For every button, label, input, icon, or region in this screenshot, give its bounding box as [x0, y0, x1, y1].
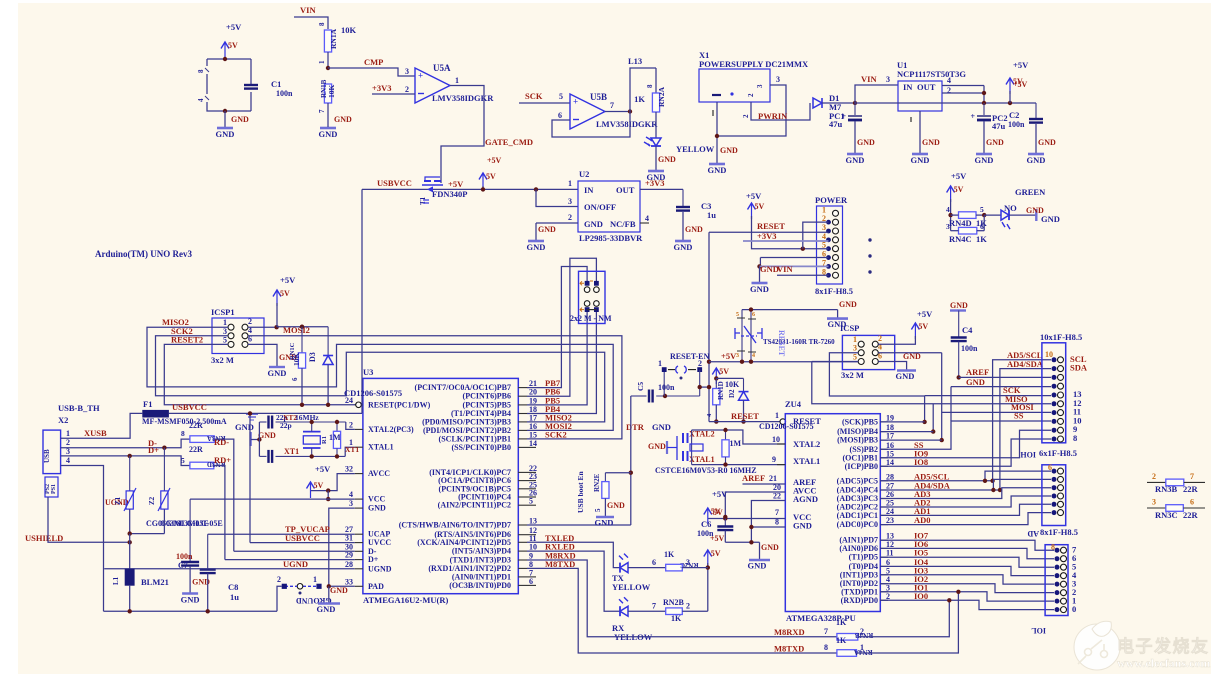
- svg-text:(MOSI)PB3: (MOSI)PB3: [837, 436, 878, 445]
- wire IO6: [880, 548, 1054, 558]
- svg-text:RD+: RD+: [214, 455, 231, 465]
- power +5V: [307, 482, 315, 489]
- resistor RN4A 1K: [837, 650, 857, 657]
- wire: [258, 422, 260, 456]
- wire: [604, 498, 606, 516]
- resistor RN4D 1K: [959, 212, 977, 219]
- U3 pin 13 (CTS/HWB/AIN6/TO/INT7)PD7: [518, 524, 527, 526]
- svg-text:GND: GND: [538, 225, 556, 234]
- svg-text:3: 3: [349, 499, 353, 508]
- U3 pin 9 (TXD1/INT3)PD3: [518, 559, 527, 561]
- svg-text:LMV358IDGKR: LMV358IDGKR: [432, 93, 494, 103]
- wire RESET to ZU4: [709, 421, 781, 423]
- svg-text:VIN: VIN: [861, 74, 877, 84]
- svg-text:16MHz: 16MHz: [295, 413, 319, 422]
- svg-text:2: 2: [686, 602, 690, 611]
- svg-text:10K: 10K: [725, 380, 740, 389]
- capacitor 22p: [259, 455, 266, 457]
- ZU4 pin 3 (TXD)PD1: [880, 591, 888, 593]
- ground: [249, 432, 251, 446]
- svg-text:6x1F-H8.5: 6x1F-H8.5: [1039, 448, 1077, 458]
- node: [326, 66, 330, 70]
- wire: [857, 592, 959, 653]
- svg-text:RESET(PC1/DW): RESET(PC1/DW): [368, 400, 431, 409]
- node: [128, 609, 132, 613]
- svg-text:100n: 100n: [276, 89, 293, 98]
- svg-text:F1: F1: [143, 399, 152, 409]
- svg-text:33: 33: [345, 577, 353, 586]
- svg-text:GND: GND: [922, 138, 940, 147]
- svg-text:4: 4: [66, 456, 70, 465]
- svg-text:19: 19: [886, 413, 894, 422]
- svg-text:FDN340P: FDN340P: [432, 189, 467, 199]
- svg-text:Arduino(TM) UNO Rev3: Arduino(TM) UNO Rev3: [95, 249, 192, 259]
- wire: [61, 456, 190, 466]
- svg-text:GND: GND: [793, 521, 812, 531]
- svg-text:GND: GND: [368, 504, 386, 513]
- svg-text:1u: 1u: [707, 210, 716, 220]
- svg-text:U5B: U5B: [590, 92, 607, 102]
- node: [335, 454, 339, 458]
- svg-text:XT1: XT1: [345, 445, 359, 454]
- wire RESET2: [164, 344, 356, 404]
- wire: [207, 102, 251, 111]
- svg-text:VIN: VIN: [300, 5, 316, 15]
- U3 pin 7 (AIN0/INT1)PD1: [518, 576, 527, 578]
- node: [1008, 101, 1012, 105]
- ZU4 pin 17 (MOSI)PB3: [880, 439, 888, 441]
- wire: [628, 567, 666, 569]
- svg-text:47u: 47u: [992, 121, 1006, 131]
- node: [326, 403, 330, 407]
- wire UGND: [104, 568, 355, 570]
- resistor 1M: [336, 422, 338, 431]
- svg-text:LMV358IDGKR: LMV358IDGKR: [596, 119, 658, 129]
- node: [749, 540, 753, 544]
- svg-text:+3V3: +3V3: [757, 231, 776, 241]
- LED TX yellow: [620, 563, 628, 573]
- U3 pin 10 (INT5/AIN3)PD4: [518, 550, 527, 552]
- wire: [207, 574, 209, 612]
- svg-text:2: 2: [886, 592, 890, 601]
- wire: [206, 59, 208, 66]
- wire: [345, 447, 355, 456]
- svg-text:RN2E: RN2E: [593, 473, 601, 492]
- wire: [61, 413, 143, 438]
- pin 7: [1055, 556, 1060, 561]
- svg-text:U3: U3: [363, 367, 373, 377]
- wire: [207, 58, 251, 60]
- wire: [1000, 369, 1051, 490]
- dots: [868, 238, 871, 241]
- svg-text:5: 5: [223, 335, 227, 344]
- wire: [777, 274, 829, 276]
- svg-text:0: 0: [1072, 604, 1076, 614]
- wire +5V rail to button: [709, 361, 858, 363]
- wire PB4: [527, 310, 596, 414]
- svg-text:3: 3: [822, 223, 826, 232]
- svg-text:DTR: DTR: [626, 422, 645, 432]
- svg-text:IN: IN: [903, 82, 913, 92]
- wire: [751, 102, 810, 120]
- ZU4 pin 16 (SS)PB2: [880, 448, 888, 450]
- svg-text:+: +: [573, 97, 578, 107]
- svg-text:6: 6: [1048, 463, 1052, 472]
- svg-text:(ADC5)PC5: (ADC5)PC5: [837, 476, 878, 485]
- svg-text:AD: AD: [1027, 529, 1039, 538]
- wire: [983, 121, 985, 153]
- node: [715, 134, 719, 138]
- svg-text:USBVCC: USBVCC: [377, 178, 412, 188]
- node: [749, 307, 753, 311]
- svg-text:GND: GND: [911, 155, 930, 165]
- svg-text:GND: GND: [720, 146, 738, 155]
- svg-text:U2: U2: [579, 169, 589, 179]
- svg-text:+5V: +5V: [315, 464, 331, 474]
- svg-text:XTAL2: XTAL2: [793, 439, 820, 449]
- svg-text:2: 2: [277, 575, 281, 584]
- U3 pin 18 (T1/PCINT4)PB4: [518, 413, 527, 415]
- wire: [655, 68, 657, 93]
- ZU4 pin 14 (ICP)PB0: [880, 465, 888, 467]
- wire: [682, 567, 708, 569]
- wire: [993, 360, 1051, 481]
- ZU4 pin 23 (ADC0)PC0: [880, 524, 888, 526]
- node: [274, 325, 278, 329]
- svg-text:7: 7: [610, 101, 614, 110]
- svg-text:1: 1: [822, 205, 826, 214]
- svg-text:GND: GND: [846, 155, 865, 165]
- pin 9: [1052, 366, 1057, 371]
- capacitor C8 1u: [207, 534, 209, 569]
- svg-text:5: 5: [736, 312, 739, 318]
- svg-text:7: 7: [824, 627, 828, 636]
- node: [714, 376, 718, 380]
- wire: [950, 387, 952, 421]
- wire: [605, 111, 630, 113]
- svg-text:(INT5/AIN3)PD4: (INT5/AIN3)PD4: [452, 547, 511, 556]
- node: [128, 454, 132, 458]
- svg-text:T1: T1: [419, 196, 427, 205]
- svg-text:5V: 5V: [486, 172, 496, 181]
- resistor RN1B 10K: [324, 84, 331, 103]
- wire: [941, 353, 943, 440]
- svg-text:L1: L1: [112, 576, 120, 585]
- node: [922, 420, 926, 424]
- svg-text:C4: C4: [962, 325, 973, 335]
- node: [698, 385, 702, 389]
- svg-text:10: 10: [529, 543, 537, 552]
- node: [310, 420, 314, 424]
- svg-text:AREF: AREF: [966, 367, 989, 377]
- svg-text:3: 3: [886, 75, 890, 84]
- svg-text:2: 2: [568, 213, 572, 222]
- svg-text:5V: 5V: [918, 322, 928, 331]
- svg-text:XTAL1: XTAL1: [689, 455, 715, 464]
- LED green: [1001, 210, 1009, 220]
- pin 5: [1052, 477, 1057, 482]
- resistor RN3D 22R: [190, 462, 214, 469]
- wire: [724, 531, 726, 543]
- svg-text:1K: 1K: [671, 614, 682, 623]
- pin 2: [1052, 502, 1057, 507]
- U3 pin 24 circle: [356, 402, 362, 408]
- svg-text:6: 6: [558, 111, 562, 120]
- node: [327, 584, 331, 588]
- node: [223, 109, 227, 113]
- wire PB7: [527, 267, 587, 388]
- wire M8RXD: [527, 560, 837, 637]
- svg-text:5: 5: [853, 353, 857, 362]
- svg-text:SDA: SDA: [1070, 363, 1088, 373]
- pin 8: [1052, 375, 1057, 380]
- wire: [251, 439, 259, 441]
- svg-text:GREEN: GREEN: [1015, 187, 1046, 197]
- svg-text:100n: 100n: [176, 552, 193, 561]
- wire: [250, 59, 252, 85]
- wire: [715, 405, 717, 422]
- svg-text:RESET2: RESET2: [171, 335, 203, 345]
- svg-text:RESET: RESET: [777, 330, 786, 357]
- svg-text:5: 5: [529, 497, 533, 506]
- wire: [327, 52, 329, 68]
- svg-text:2: 2: [66, 438, 70, 447]
- ground: [752, 282, 768, 285]
- svg-text:GND: GND: [857, 138, 875, 147]
- svg-text:UVCC: UVCC: [368, 538, 391, 547]
- resistor RN2C 1K: [666, 564, 683, 571]
- svg-text:POWERSUPPLY DC21MMX: POWERSUPPLY DC21MMX: [699, 59, 809, 69]
- svg-text:(T1)PD5: (T1)PD5: [849, 553, 878, 562]
- svg-text:+3V3: +3V3: [372, 83, 391, 93]
- wire: [628, 610, 666, 612]
- svg-text:ICSP: ICSP: [840, 323, 859, 333]
- wire MOSI to header: [942, 411, 1051, 413]
- pin 4: [1052, 410, 1057, 415]
- svg-text:GND: GND: [235, 422, 254, 432]
- wire: [707, 563, 709, 611]
- svg-text:USBVCC: USBVCC: [172, 402, 207, 412]
- wire: [129, 509, 131, 533]
- svg-text:1: 1: [66, 429, 70, 438]
- svg-text:(ADC0)PC0: (ADC0)PC0: [837, 520, 878, 529]
- svg-text:+5V: +5V: [226, 22, 242, 32]
- wire ground rail: [104, 610, 278, 612]
- svg-text:+5V: +5V: [746, 191, 762, 201]
- wire PAD: [329, 585, 355, 587]
- wire AREF: [959, 376, 1051, 378]
- resistor RN2B 1K: [666, 608, 683, 615]
- wire: [214, 466, 225, 560]
- svg-text:GND: GND: [181, 595, 200, 605]
- op-amp U5A: [415, 68, 450, 103]
- node: [223, 57, 227, 61]
- svg-text:CMP: CMP: [364, 57, 383, 67]
- svg-text:5: 5: [886, 566, 890, 575]
- svg-text:1K: 1K: [664, 550, 675, 559]
- svg-text:5V: 5V: [713, 508, 723, 517]
- svg-text:www.elecfans.com: www.elecfans.com: [1117, 656, 1210, 670]
- node: [707, 385, 711, 389]
- wire: [248, 344, 277, 366]
- svg-text:AVCC: AVCC: [368, 469, 390, 478]
- svg-text:RN4C: RN4C: [949, 234, 972, 244]
- wire USBVCC rail: [362, 188, 578, 190]
- connector 8x1F-H8.5 IOL: [1045, 545, 1068, 616]
- svg-text:SCK2: SCK2: [545, 429, 567, 439]
- svg-text:U5A: U5A: [433, 63, 451, 73]
- U3 pin 24 RESET(PC1/DW): [355, 404, 363, 406]
- wire SCK2: [156, 336, 605, 422]
- capacitor C7 100n: [189, 499, 191, 562]
- svg-text:SCK: SCK: [525, 91, 543, 101]
- node: [957, 375, 961, 379]
- test point GROUND: [316, 584, 321, 589]
- watermark elecfans logo: [1074, 621, 1120, 670]
- wire M8TXD: [527, 568, 837, 653]
- wire: [1035, 124, 1037, 153]
- ZU4 pin 6 (T0)PD4: [880, 565, 888, 567]
- svg-text:+5V: +5V: [448, 179, 464, 189]
- node: [714, 419, 718, 423]
- svg-text:(SCK)PB5: (SCK)PB5: [842, 417, 878, 426]
- wire USBVCC riser: [361, 189, 363, 413]
- wire GND: [751, 526, 785, 528]
- node: [982, 101, 986, 105]
- wire: [1009, 214, 1036, 216]
- wire: [759, 542, 761, 559]
- wire: [327, 103, 329, 115]
- node: [723, 462, 727, 466]
- U3 pin 29 D+: [355, 559, 363, 561]
- svg-text:5: 5: [181, 456, 185, 465]
- node: [162, 446, 166, 450]
- svg-text:4: 4: [197, 98, 205, 102]
- svg-text:8x1F-H8.5: 8x1F-H8.5: [1040, 527, 1078, 537]
- ZU4 pin 10 XTAL2: [777, 443, 785, 445]
- wire: [169, 412, 362, 414]
- svg-text:GND: GND: [750, 284, 769, 294]
- svg-text:XTAL1: XTAL1: [368, 443, 394, 452]
- svg-text:10K: 10K: [327, 85, 336, 99]
- node: [757, 264, 761, 268]
- wire AGND: [751, 501, 785, 543]
- wire: [328, 586, 330, 602]
- svg-text:5V: 5V: [228, 41, 238, 50]
- svg-text:8: 8: [824, 643, 828, 652]
- pin 1: [1052, 510, 1057, 515]
- wire: [327, 491, 329, 500]
- svg-text:PAD: PAD: [368, 582, 384, 591]
- svg-text:GND: GND: [748, 561, 767, 571]
- svg-text:14: 14: [886, 458, 894, 467]
- svg-text:GND: GND: [607, 501, 625, 510]
- node: [706, 565, 710, 569]
- node: [326, 497, 330, 501]
- node: [534, 187, 538, 191]
- wire: [327, 115, 329, 127]
- svg-text:XTAL1: XTAL1: [793, 456, 820, 466]
- svg-text:D+: D+: [368, 555, 379, 564]
- node: [300, 325, 304, 329]
- svg-text:GND: GND: [903, 352, 921, 361]
- wire RXLED: [527, 551, 620, 611]
- svg-text:GND: GND: [652, 422, 671, 432]
- svg-text:IOH: IOH: [1020, 450, 1036, 459]
- svg-text:8x1F-H8.5: 8x1F-H8.5: [815, 286, 853, 296]
- svg-text:6: 6: [291, 377, 299, 381]
- svg-text:NCP1117ST50T3G: NCP1117ST50T3G: [897, 69, 966, 79]
- svg-text:9: 9: [772, 455, 776, 464]
- U3 pin 16 (PDI/MOSI/PCINT2)PB2: [518, 429, 527, 431]
- wire: [803, 222, 829, 249]
- U3 pin 11 (XCK/AIN4/PCINT12)PD5: [518, 541, 527, 543]
- svg-text:RESET-EN: RESET-EN: [670, 352, 710, 361]
- node: [948, 213, 952, 217]
- svg-text:SS: SS: [1014, 411, 1024, 421]
- svg-text:CG0603MLC-05E: CG0603MLC-05E: [160, 519, 223, 528]
- node: [740, 360, 744, 364]
- svg-text:IOL: IOL: [1031, 626, 1046, 635]
- svg-text:22R: 22R: [189, 421, 203, 430]
- svg-text:1: 1: [775, 411, 779, 420]
- node: [983, 479, 987, 483]
- wire SS: [880, 421, 1051, 449]
- svg-text:GND: GND: [1041, 214, 1060, 224]
- node: [257, 437, 261, 441]
- pin 8: [1055, 548, 1060, 553]
- LED yellow: [651, 138, 661, 146]
- wire MISO2: [147, 327, 613, 430]
- svg-text:32: 32: [345, 465, 353, 474]
- svg-text:+5V: +5V: [280, 275, 296, 285]
- svg-text:6: 6: [980, 222, 984, 231]
- pin 5: [1055, 573, 1060, 578]
- svg-text:1K: 1K: [836, 636, 847, 645]
- svg-text:(PCINT6)PB6: (PCINT6)PB6: [463, 392, 511, 401]
- wire AD2: [880, 496, 1051, 507]
- wire UGND: [61, 466, 104, 612]
- svg-text:1u: 1u: [230, 592, 239, 602]
- node: [629, 471, 633, 475]
- svg-text:AGND: AGND: [793, 494, 818, 504]
- svg-text:ATMEGA16U2-MU(R): ATMEGA16U2-MU(R): [363, 595, 448, 605]
- U3 pin 15 (SCLK/PCINT1)PB1: [518, 438, 527, 440]
- wire IO0: [880, 600, 1054, 609]
- svg-text:ZU4: ZU4: [785, 399, 802, 409]
- svg-text:1K: 1K: [634, 94, 645, 104]
- ZU4 pin 11 (T1)PD5: [880, 556, 888, 558]
- svg-text:GND: GND: [839, 300, 857, 309]
- wire USBVCC riser: [249, 413, 251, 542]
- svg-text:GND: GND: [317, 604, 336, 614]
- svg-text:12: 12: [886, 540, 894, 549]
- svg-text:22: 22: [773, 492, 781, 501]
- U3 pin 25 (PCINT9/OC1B)PC5: [518, 488, 527, 490]
- svg-text:3: 3: [66, 447, 70, 456]
- node: [707, 360, 711, 364]
- svg-text:2: 2: [349, 420, 353, 429]
- svg-text:GND: GND: [527, 242, 546, 252]
- wire UCAP: [208, 533, 355, 535]
- svg-text:3: 3: [686, 558, 690, 567]
- wire SCK: [829, 353, 924, 396]
- capacitor C1: [244, 84, 258, 86]
- svg-text:GND: GND: [761, 543, 779, 552]
- svg-text:1: 1: [860, 643, 864, 652]
- wire D+: [225, 559, 355, 561]
- svg-text:AD4/SDA: AD4/SDA: [1007, 359, 1044, 369]
